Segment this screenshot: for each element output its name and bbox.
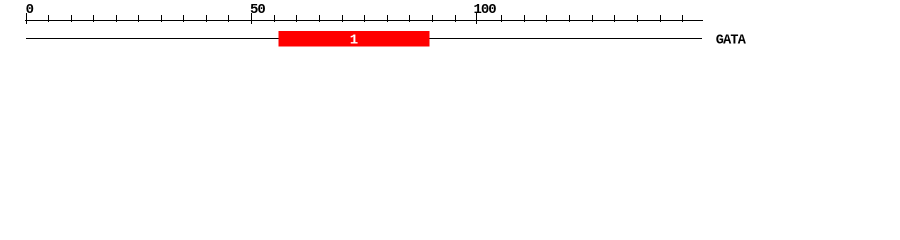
ruler minor tick 105	[501, 15, 503, 22]
ruler minor tick 40	[206, 15, 208, 22]
ruler minor tick 10	[71, 15, 73, 22]
ruler minor tick 145	[682, 15, 684, 22]
ruler tick 100 (major)	[476, 13, 478, 24]
ruler minor tick 110	[524, 15, 526, 22]
background	[0, 0, 900, 58]
ruler minor tick 115	[546, 15, 548, 22]
ruler minor tick 45	[228, 15, 230, 22]
svg-text:1: 1	[350, 32, 358, 48]
ruler minor tick 55	[274, 15, 276, 22]
feature box 1 (red)	[279, 31, 430, 47]
ruler minor tick 125	[592, 15, 594, 22]
ruler minor tick 15	[93, 15, 95, 22]
svg-text:A: A	[738, 33, 747, 48]
svg-text:50: 50	[250, 2, 265, 18]
ruler axis line	[25, 20, 703, 22]
ruler minor tick 25	[138, 15, 140, 22]
ruler minor tick 140	[660, 15, 662, 22]
ruler minor tick 120	[569, 15, 571, 22]
ruler minor tick 5	[48, 15, 50, 22]
ruler minor tick 65	[319, 15, 321, 22]
ruler minor tick 85	[409, 15, 411, 22]
svg-text:0: 0	[26, 2, 34, 18]
ruler minor tick 80	[387, 15, 389, 22]
ruler tick 0 (major)	[26, 13, 28, 24]
svg-text:100: 100	[474, 2, 497, 18]
ruler minor tick 35	[183, 15, 185, 22]
ruler minor tick 130	[614, 15, 616, 22]
ruler minor tick 20	[116, 15, 118, 22]
ruler minor tick 70	[342, 15, 344, 22]
ruler minor tick 90	[432, 15, 434, 22]
ruler minor tick 75	[364, 15, 366, 22]
ruler tick 50 (major)	[251, 13, 253, 24]
ruler minor tick 30	[161, 15, 163, 22]
sequence line	[26, 38, 702, 40]
ruler minor tick 60	[296, 15, 298, 22]
ruler minor tick 135	[637, 15, 639, 22]
ruler minor tick 95	[455, 15, 457, 22]
